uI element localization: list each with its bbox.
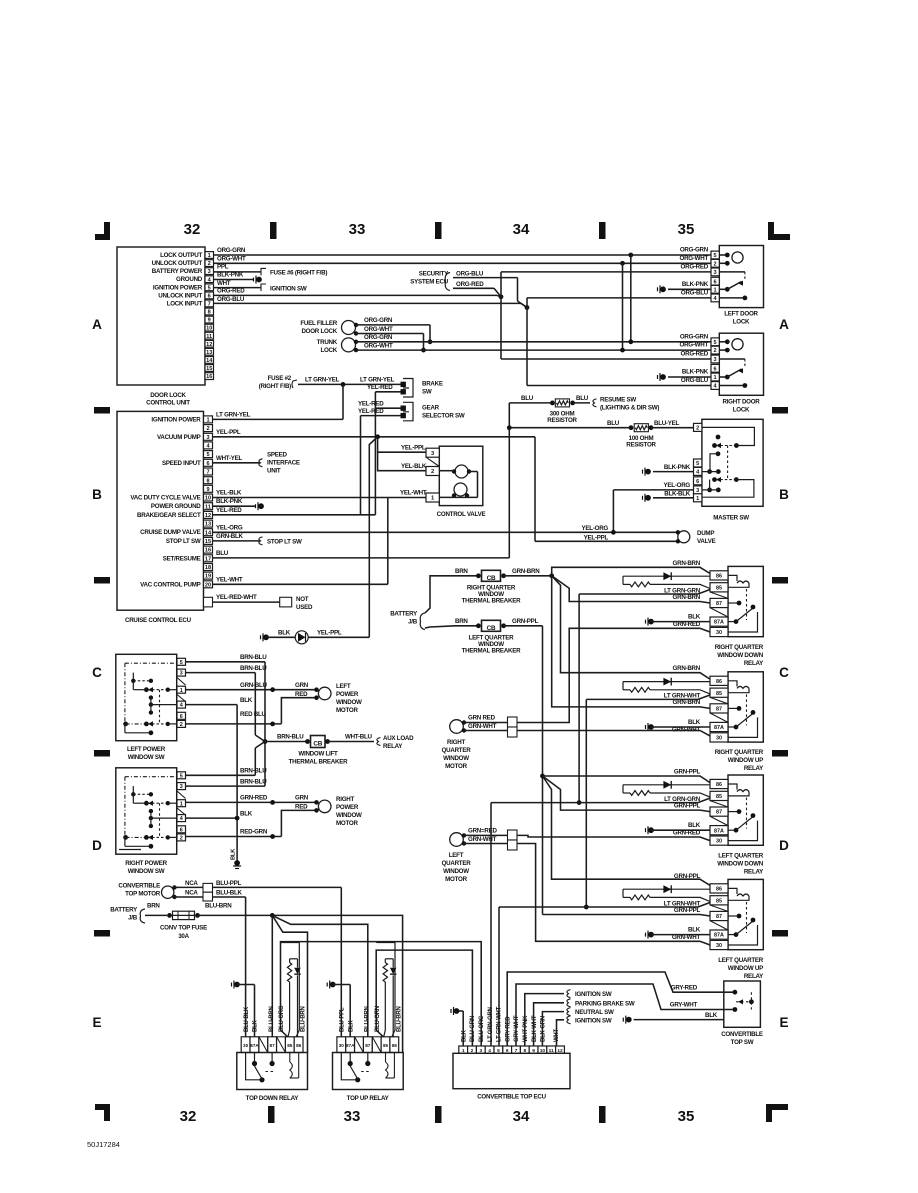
left quarter window up relay K4 contact 87 bbox=[728, 915, 739, 917]
border corner bottom-right bbox=[766, 1104, 788, 1122]
right power window motor M6 bbox=[318, 800, 331, 813]
door lock control unit pin 13 bbox=[205, 348, 214, 355]
svg-text:5: 5 bbox=[180, 773, 183, 779]
cruise ECU aux connector bbox=[204, 597, 213, 607]
wire BLK-PNK right door bbox=[668, 376, 711, 378]
svg-text:LOCK: LOCK bbox=[733, 406, 750, 413]
master switch SW3 bbox=[702, 419, 763, 506]
svg-text:BLK: BLK bbox=[348, 1020, 354, 1032]
svg-text:BLK: BLK bbox=[688, 822, 701, 829]
svg-text:7: 7 bbox=[206, 470, 209, 476]
wire BRN-BLU upper pin3 bbox=[186, 672, 256, 674]
control valve pin 1 bbox=[426, 493, 439, 502]
wire GRY-RED ECU pin6 to conv top sw bbox=[507, 972, 735, 1046]
svg-text:WHT-YEL: WHT-YEL bbox=[216, 455, 243, 462]
wire YEL-WHT to control valve pin1 bbox=[388, 497, 432, 499]
right quarter window down relay K1 coil bbox=[728, 575, 737, 581]
master sw pin 6 bbox=[694, 477, 702, 485]
node BLU-BRN junction bbox=[270, 913, 275, 918]
top down relay K5 suppression loop bbox=[281, 943, 300, 1037]
right quarter window up relay K2 coil bbox=[728, 681, 737, 687]
top up relay K6 suppression diode bbox=[392, 959, 394, 968]
conv top ECU pin 4 bbox=[485, 1046, 494, 1053]
svg-text:BLU-PPL: BLU-PPL bbox=[340, 1007, 346, 1032]
svg-text:35: 35 bbox=[678, 1108, 695, 1125]
left quarter window up relay K4 87A BLK ground bbox=[646, 931, 654, 939]
svg-text:32: 32 bbox=[184, 221, 201, 238]
left quarter window down relay K3 contact 87 bbox=[728, 811, 739, 813]
cruise ECU pin 20 bbox=[204, 581, 213, 588]
svg-text:BLU: BLU bbox=[216, 550, 229, 557]
svg-text:5: 5 bbox=[206, 452, 209, 458]
resistor 100 ohm R2 bbox=[509, 427, 631, 429]
door lock control unit pin 6 bbox=[205, 292, 214, 299]
svg-text:MOTOR: MOTOR bbox=[445, 763, 467, 770]
svg-text:30: 30 bbox=[716, 943, 722, 949]
conv top ECU pin 11 bbox=[547, 1046, 556, 1053]
wire LT GRN-YEL fuse2 to brake sw bbox=[298, 383, 403, 385]
svg-text:BLK-PNK: BLK-PNK bbox=[217, 271, 244, 278]
svg-text:WINDOW LIFT: WINDOW LIFT bbox=[298, 750, 338, 757]
svg-text:GRN-PPL: GRN-PPL bbox=[674, 802, 701, 809]
svg-text:BLK: BLK bbox=[688, 614, 701, 621]
svg-text:YEL-ORG: YEL-ORG bbox=[664, 482, 691, 489]
svg-text:GRN-PPL: GRN-PPL bbox=[674, 907, 701, 914]
right door lock pin 6 bbox=[711, 364, 719, 372]
svg-text:2: 2 bbox=[714, 261, 717, 267]
svg-text:MOTOR: MOTOR bbox=[336, 707, 358, 714]
master sw internal row 3 bbox=[707, 488, 712, 493]
right quarter window down relay K1 suppression resistor bbox=[622, 576, 624, 584]
master sw pin 1 bbox=[694, 494, 702, 502]
svg-text:86: 86 bbox=[716, 887, 722, 893]
svg-text:BLU-BRN: BLU-BRN bbox=[269, 1006, 275, 1032]
wire BLK-BLK master pin1 bbox=[653, 497, 694, 499]
wire WHT-BLU to aux load relay bbox=[328, 741, 375, 743]
svg-text:1: 1 bbox=[714, 375, 717, 381]
right door lock pin 1 bbox=[711, 373, 719, 381]
left quarter window down relay K3 pin 85 bbox=[710, 791, 728, 800]
svg-text:NEUTRAL SW: NEUTRAL SW bbox=[575, 1009, 614, 1016]
left quarter window down relay K3 87A BLK ground bbox=[646, 826, 654, 834]
fuse #2 connector bbox=[292, 380, 297, 388]
svg-text:1: 1 bbox=[180, 688, 183, 694]
svg-text:RESUME SW: RESUME SW bbox=[600, 396, 636, 403]
svg-text:2: 2 bbox=[180, 836, 183, 842]
svg-text:87A: 87A bbox=[714, 828, 724, 834]
node BLK bbox=[235, 816, 240, 821]
wire ORG-GRN pin1 to left door lock bbox=[214, 254, 720, 256]
svg-text:1: 1 bbox=[206, 418, 209, 424]
control valve lower solenoid bbox=[454, 483, 467, 496]
left quarter window down relay K3 slash marks bbox=[710, 801, 728, 807]
svg-text:BLU-BLK: BLU-BLK bbox=[244, 1006, 250, 1032]
svg-text:30: 30 bbox=[716, 839, 722, 845]
svg-text:GRN-BRN: GRN-BRN bbox=[673, 665, 701, 672]
left quarter window up relay K4 pin 85 bbox=[710, 896, 728, 905]
wire BLU riser bbox=[508, 403, 510, 558]
right quarter window down relay K1 pin 86 bbox=[710, 571, 728, 580]
svg-text:BRN-BLU: BRN-BLU bbox=[277, 734, 304, 741]
wire BRN-BLU lower pin5 bbox=[186, 774, 256, 776]
wire BLK-GRN ECU pin10 to neutral sw bbox=[542, 1012, 564, 1046]
svg-text:YEL-ORG: YEL-ORG bbox=[216, 524, 243, 531]
svg-text:BLU: BLU bbox=[521, 395, 534, 402]
svg-text:BLU: BLU bbox=[576, 395, 589, 402]
svg-text:3: 3 bbox=[208, 269, 211, 275]
svg-text:ORG-GRN: ORG-GRN bbox=[680, 333, 709, 340]
node ORG-BLU junction bbox=[525, 305, 530, 310]
left power window switch SW4 box bbox=[116, 654, 177, 740]
wire GRN-BLU upper pin1 bbox=[186, 689, 317, 691]
svg-text:MOTOR: MOTOR bbox=[336, 820, 358, 827]
svg-text:BLU-BRN: BLU-BRN bbox=[301, 1006, 307, 1032]
svg-text:6: 6 bbox=[714, 279, 717, 285]
wire BLU-BRN from fuse bbox=[198, 914, 273, 916]
svg-text:(LIGHTING & DIR SW): (LIGHTING & DIR SW) bbox=[600, 404, 659, 411]
cruise ECU pin 17 bbox=[204, 555, 213, 562]
left door lock pin 1 bbox=[711, 285, 719, 293]
right quarter window up relay K2 dashed actuator bbox=[746, 694, 748, 725]
cruise ECU pin 19 bbox=[204, 572, 213, 579]
wire BLU-BRN to top up relay 87 bbox=[272, 915, 368, 1036]
right door lock motor bbox=[719, 341, 727, 343]
wire ORG-GRN fuel filler bbox=[356, 324, 430, 326]
svg-text:QUARTER: QUARTER bbox=[442, 747, 472, 754]
grid tick right bbox=[772, 750, 788, 757]
wire YEL-PPL to dump valve bbox=[534, 437, 536, 542]
svg-text:AUX LOAD: AUX LOAD bbox=[383, 735, 414, 742]
wire YEL-ORG drop to dump valve bbox=[612, 490, 614, 532]
wire BRN-BLU bus B lower bbox=[254, 748, 256, 775]
master sw internal mid bbox=[716, 451, 721, 456]
svg-text:30A: 30A bbox=[178, 933, 189, 940]
svg-text:BRN: BRN bbox=[455, 618, 468, 625]
svg-text:6: 6 bbox=[206, 461, 209, 467]
node YEL-PPL junction bbox=[375, 434, 380, 439]
cruise ECU pin 3 bbox=[204, 433, 213, 440]
door lock control unit pin 12 bbox=[205, 340, 214, 347]
wire BRN to conv top fuse bbox=[145, 914, 167, 916]
svg-text:GRN-PPL: GRN-PPL bbox=[512, 618, 539, 625]
ignition sw connector 1 bbox=[567, 990, 571, 998]
wire GRN-RED lower pin1 bbox=[186, 801, 317, 803]
svg-text:50J17284: 50J17284 bbox=[87, 1140, 120, 1149]
svg-text:11: 11 bbox=[206, 334, 212, 340]
resume switch resistor 300 ohm R1 bbox=[509, 402, 552, 404]
master sw pin 5 bbox=[694, 459, 702, 467]
svg-text:YEL-PPL: YEL-PPL bbox=[317, 629, 342, 636]
left quarter window down relay K3 dashed actuator bbox=[746, 798, 748, 829]
wire RED-BLU upper pin2 bbox=[186, 723, 282, 725]
svg-text:11: 11 bbox=[205, 504, 211, 510]
svg-text:1: 1 bbox=[714, 287, 717, 293]
wire BLK-PNK cruise pin11 bbox=[213, 505, 256, 507]
svg-text:RIGHT DOOR: RIGHT DOOR bbox=[722, 398, 760, 405]
left quarter window up relay K4 dashed actuator bbox=[746, 902, 748, 933]
node YEL-ORG bbox=[611, 530, 616, 535]
svg-text:BRAKE/GEAR SELECT: BRAKE/GEAR SELECT bbox=[137, 512, 201, 519]
svg-text:LT GRN-YEL: LT GRN-YEL bbox=[360, 377, 395, 384]
svg-text:NOT: NOT bbox=[296, 596, 309, 603]
svg-text:CRUISE DUMP VALVE: CRUISE DUMP VALVE bbox=[140, 529, 201, 536]
left quarter window down relay K3 contact 30 bbox=[728, 821, 758, 841]
svg-text:6: 6 bbox=[696, 479, 699, 485]
svg-text:GRN-BLK: GRN-BLK bbox=[216, 533, 244, 540]
ground G2 bbox=[658, 285, 666, 293]
top up relay K6 suppression loop bbox=[376, 943, 395, 1037]
wire YEL-ORG cruise pin14 to dump valve bbox=[213, 531, 679, 533]
right door lock pin 5 bbox=[711, 338, 719, 346]
svg-text:ORG-RED: ORG-RED bbox=[681, 263, 709, 270]
wire YEL-RED vertical bbox=[374, 392, 376, 515]
top up relay K6 pin row bbox=[337, 1037, 346, 1053]
svg-text:YEL-PPL: YEL-PPL bbox=[584, 534, 609, 541]
svg-text:16: 16 bbox=[206, 374, 212, 380]
svg-text:87A: 87A bbox=[346, 1043, 355, 1048]
wire BLU-BRN to top down relay 87 bbox=[271, 915, 273, 1036]
svg-text:GRN-BRN: GRN-BRN bbox=[673, 699, 701, 706]
master sw pin 2 bbox=[694, 423, 702, 431]
wire WHT-YEL cruise pin6 bbox=[213, 462, 261, 464]
wire WHT ECU pin12 to ignition sw bbox=[557, 1020, 565, 1046]
svg-text:87A: 87A bbox=[714, 933, 724, 939]
svg-text:BLK-PNK: BLK-PNK bbox=[682, 369, 709, 376]
svg-text:THERMAL BREAKER: THERMAL BREAKER bbox=[289, 758, 348, 765]
svg-text:3: 3 bbox=[714, 270, 717, 276]
door lock control unit pin 3 bbox=[205, 268, 214, 275]
svg-text:6: 6 bbox=[714, 366, 717, 372]
svg-text:GRN: GRN bbox=[295, 795, 309, 802]
master sw dashed link bbox=[727, 446, 729, 480]
wire ORG-BLU to right door pin4 bbox=[527, 385, 719, 387]
svg-text:UNLOCK INPUT: UNLOCK INPUT bbox=[158, 292, 202, 299]
left quarter window up relay K4 switch arm bbox=[728, 934, 736, 936]
wire GRN-PPL bus vertical bbox=[542, 626, 544, 915]
svg-text:BLU: BLU bbox=[607, 420, 620, 427]
window lift thermal breaker CB3 bbox=[265, 741, 308, 743]
wire GRN-BRN to K1 pin87 bbox=[552, 576, 710, 603]
grid tick top 3 bbox=[599, 222, 606, 239]
left quarter window up relay K4 pin 87 bbox=[710, 911, 728, 920]
door lock control unit pin 2 bbox=[205, 260, 214, 267]
cruise ECU pin 16 bbox=[204, 546, 213, 553]
left door lock pin 5 bbox=[711, 251, 719, 259]
svg-text:LT GRN-YEL: LT GRN-YEL bbox=[216, 411, 251, 418]
wire BRN to CB2 bbox=[425, 626, 478, 628]
svg-text:3: 3 bbox=[696, 488, 699, 494]
door lock control unit pin 11 bbox=[205, 332, 214, 339]
svg-text:2: 2 bbox=[696, 426, 699, 432]
svg-text:B: B bbox=[92, 487, 102, 502]
svg-text:ORG-WHT: ORG-WHT bbox=[217, 255, 246, 262]
svg-text:MOTOR: MOTOR bbox=[445, 876, 467, 883]
svg-text:6: 6 bbox=[208, 294, 211, 300]
svg-text:D: D bbox=[779, 838, 789, 853]
cruise ECU pin 2 bbox=[204, 425, 213, 432]
right quarter window down relay K1 87A BLK ground bbox=[646, 618, 654, 626]
svg-text:RELAY: RELAY bbox=[383, 743, 403, 750]
grid tick bottom 3 bbox=[599, 1106, 606, 1123]
border corner top-right bbox=[768, 222, 790, 240]
left quarter window down relay K3 suppression resistor bbox=[622, 785, 624, 793]
svg-text:IGNITION POWER: IGNITION POWER bbox=[151, 416, 201, 423]
svg-text:E: E bbox=[779, 1015, 788, 1030]
right quarter window down relay K1 contact 87 bbox=[728, 602, 739, 604]
svg-text:LEFT POWER: LEFT POWER bbox=[127, 746, 166, 753]
svg-text:A: A bbox=[92, 317, 102, 332]
svg-text:ORG-BLU: ORG-BLU bbox=[681, 377, 709, 384]
svg-text:5: 5 bbox=[208, 285, 211, 291]
door lock control unit pin 5 bbox=[205, 284, 214, 291]
svg-text:10: 10 bbox=[205, 496, 211, 502]
svg-text:15: 15 bbox=[205, 539, 211, 545]
svg-text:87A: 87A bbox=[250, 1043, 259, 1048]
top down relay K5 internals bbox=[252, 1061, 257, 1066]
wire GRN-BRN from CB1 bbox=[504, 575, 552, 577]
svg-text:87A: 87A bbox=[714, 620, 724, 626]
svg-text:PARKING BRAKE SW: PARKING BRAKE SW bbox=[575, 1000, 635, 1007]
ground G1 bbox=[254, 276, 262, 284]
wire YEL-RED brake sw bbox=[375, 391, 400, 393]
svg-text:YEL-RED: YEL-RED bbox=[367, 384, 393, 391]
left quarter window up relay K4 coil bbox=[728, 888, 737, 894]
left door lock pin 2 bbox=[711, 259, 719, 267]
svg-text:GRN-WHT: GRN-WHT bbox=[672, 934, 701, 941]
svg-text:CONVERTIBLE: CONVERTIBLE bbox=[118, 883, 160, 890]
svg-text:IGNITION POWER: IGNITION POWER bbox=[153, 284, 203, 291]
node LT GRN-WHT bbox=[584, 905, 589, 910]
svg-text:YEL-PPL: YEL-PPL bbox=[401, 444, 426, 451]
right power window switch SW5 internals bbox=[125, 776, 177, 778]
wire GRN-WHT right quarter motor bbox=[464, 730, 508, 732]
master sw pin 4 bbox=[694, 467, 702, 475]
svg-text:RELAY: RELAY bbox=[744, 973, 764, 980]
ground G3 bbox=[658, 373, 666, 381]
svg-text:LEFT QUARTER: LEFT QUARTER bbox=[718, 957, 764, 964]
svg-text:GRY-WHT: GRY-WHT bbox=[514, 1015, 520, 1042]
speed interface unit connector bbox=[259, 459, 263, 467]
wire GRN-BRN to K2 pin86 bbox=[552, 576, 710, 679]
conv top ECU pin 7 bbox=[512, 1046, 521, 1053]
left quarter window down relay K3 switch arm bbox=[728, 829, 736, 831]
svg-text:SPEED: SPEED bbox=[267, 452, 288, 459]
wire LT GRN-YEL to cruise pin1 bbox=[342, 384, 344, 419]
door lock control unit pin 8 bbox=[205, 308, 214, 315]
svg-text:30: 30 bbox=[243, 1043, 249, 1048]
top up relay K6 internals bbox=[348, 1061, 353, 1066]
aux load relay connector bbox=[377, 738, 381, 746]
border corner bottom-left bbox=[95, 1104, 110, 1121]
left quarter window up relay K4 contact 30 bbox=[728, 925, 758, 945]
right quarter window down relay K1 pin 30 bbox=[710, 627, 728, 636]
wire GRN-RED to K3 pin30 bbox=[517, 835, 710, 840]
svg-text:RED BLU: RED BLU bbox=[240, 711, 267, 718]
right quarter window up relay K2 assembly bbox=[728, 672, 763, 742]
svg-text:30: 30 bbox=[716, 630, 722, 636]
door lock control unit pin 16 bbox=[205, 373, 214, 380]
left quarter window down relay K3 pin 87 bbox=[710, 807, 728, 816]
svg-text:BATTERY: BATTERY bbox=[390, 610, 418, 617]
svg-text:GRY-RED: GRY-RED bbox=[505, 1016, 511, 1042]
left door lock pin 6 bbox=[711, 277, 719, 285]
cruise ECU pin 14 bbox=[204, 529, 213, 536]
wire ORG-RED to right door pin3 bbox=[501, 358, 719, 360]
svg-text:BLU-BRN: BLU-BRN bbox=[205, 903, 232, 910]
parking brake sw connector bbox=[567, 999, 571, 1007]
node BRN-BLU junction bbox=[263, 739, 268, 744]
wire ORG-RED from security ecu bbox=[453, 287, 494, 289]
wire LT GRN-WHT K2 pin85 bbox=[586, 695, 710, 699]
top up relay K6 body bbox=[333, 1053, 404, 1090]
door lock control unit pin 9 bbox=[205, 316, 214, 323]
node RED-BLU bbox=[270, 722, 275, 727]
grid tick left bbox=[94, 407, 110, 414]
svg-text:GRN RED: GRN RED bbox=[468, 715, 496, 722]
svg-text:GRN-BRN: GRN-BRN bbox=[512, 568, 540, 575]
grid tick top 2 bbox=[435, 222, 442, 239]
svg-text:RELAY: RELAY bbox=[744, 660, 764, 667]
left quarter window up relay K4 pin 87A bbox=[710, 930, 728, 939]
left power window switch SW4 pin 5 bbox=[177, 658, 186, 665]
wire LT GRN-GRN bus bbox=[578, 594, 580, 803]
wire GRN-RED right quarter motor bbox=[464, 722, 508, 724]
svg-text:BRN-BLU: BRN-BLU bbox=[240, 665, 267, 672]
svg-text:STOP LT SW: STOP LT SW bbox=[166, 538, 201, 545]
left power window switch SW4 pin 4 bbox=[177, 701, 186, 708]
svg-text:SW: SW bbox=[422, 389, 432, 396]
right power window switch SW5 box bbox=[116, 768, 177, 854]
top down relay K5 suppression resistor bbox=[290, 958, 298, 960]
right quarter window down relay K1 contact 30 bbox=[728, 612, 758, 632]
wire BLU-BLK conv motor to top down relay 30 bbox=[213, 896, 246, 898]
left quarter window up relay K4 suppression resistor bbox=[622, 889, 624, 897]
node GRN-PPL junction bbox=[540, 774, 545, 779]
svg-text:4: 4 bbox=[180, 816, 183, 822]
ignition sw connector 2 bbox=[567, 1016, 571, 1024]
svg-text:8: 8 bbox=[208, 310, 211, 316]
svg-text:3: 3 bbox=[714, 357, 717, 363]
svg-text:86: 86 bbox=[296, 1043, 302, 1048]
convertible top switch SW6 bbox=[724, 981, 761, 1027]
wire WHT-PNK ECU pin8 to ignition sw bbox=[525, 994, 564, 1046]
svg-text:3: 3 bbox=[180, 784, 183, 790]
right quarter window motor M3 bbox=[450, 720, 464, 734]
wire BLU cruise pin17 bbox=[213, 557, 510, 559]
wire RED-GRN lower pin2 bbox=[186, 836, 282, 838]
left quarter window down relay K3 pin 30 bbox=[710, 836, 728, 845]
svg-text:86: 86 bbox=[716, 782, 722, 788]
left quarter window down relay K3 coil bbox=[728, 784, 737, 790]
svg-text:5: 5 bbox=[714, 253, 717, 259]
svg-text:87: 87 bbox=[270, 1043, 276, 1048]
svg-text:30: 30 bbox=[716, 736, 722, 742]
svg-text:SELECTOR SW: SELECTOR SW bbox=[422, 412, 465, 419]
right quarter window up relay K2 switch arm bbox=[728, 726, 736, 728]
svg-text:85: 85 bbox=[287, 1043, 293, 1048]
svg-text:34: 34 bbox=[513, 221, 530, 238]
svg-text:BLU-ORG: BLU-ORG bbox=[479, 1015, 485, 1042]
right power window switch extra bar bbox=[119, 849, 141, 851]
wire BLK upper pin4 bbox=[186, 704, 238, 706]
svg-text:LOCK INPUT: LOCK INPUT bbox=[167, 300, 203, 307]
wire fuel filler ORG-WHT drop bbox=[423, 334, 425, 351]
svg-text:ORG-GRN: ORG-GRN bbox=[364, 334, 393, 341]
svg-text:87A: 87A bbox=[714, 725, 724, 731]
svg-text:UNLOCK OUTPUT: UNLOCK OUTPUT bbox=[152, 260, 203, 267]
svg-text:7: 7 bbox=[208, 302, 211, 308]
wire YEL-RED cruise pin12 bbox=[213, 514, 376, 516]
